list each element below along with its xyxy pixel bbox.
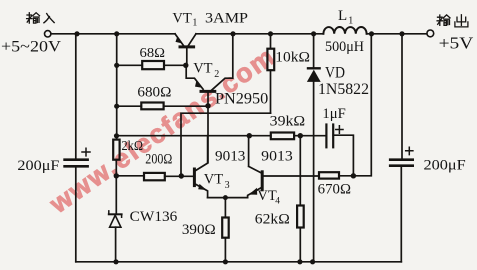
resistor 68 ohm (117, 61, 186, 69)
transistor VT3 (194, 136, 207, 198)
svg-text:500μH: 500μH (325, 39, 365, 55)
node: 62k at rail (297, 259, 302, 264)
node: 670 ohm right / 1uF right (351, 173, 356, 178)
node: zener at rail (113, 259, 118, 264)
transistor VT1 (175, 34, 196, 66)
svg-text:PN2950: PN2950 (215, 90, 269, 107)
transistor VT4 (248, 136, 319, 198)
node: 39k right / 1uF / 62k (298, 133, 303, 138)
svg-text:+5~20V: +5~20V (1, 39, 62, 56)
resistor 200 ohm (116, 173, 193, 180)
inductor L1 (323, 27, 366, 34)
node: VT4 collector / 39k line (247, 133, 252, 138)
wire: emitter bus (208, 197, 248, 199)
svg-text:4: 4 (275, 197, 280, 207)
resistor 670 ohm (319, 34, 371, 179)
svg-text:200μF: 200μF (17, 158, 59, 174)
svg-text:62kΩ: 62kΩ (255, 212, 290, 228)
svg-text:CW136: CW136 (130, 209, 178, 225)
resistor 680 ohm (117, 103, 208, 110)
node: rail x77 (74, 31, 79, 36)
label 输 of 输入 (27, 13, 40, 23)
svg-text:VD: VD (325, 65, 345, 82)
node: emitter bus center (223, 195, 228, 200)
svg-text:3AMP: 3AMP (205, 11, 248, 27)
svg-text:9013: 9013 (215, 149, 245, 165)
node: VD at rail (310, 259, 315, 264)
node: L1 right (369, 31, 374, 36)
svg-text:VT: VT (257, 188, 276, 204)
wire: input to VT1 emitter (51, 33, 175, 35)
svg-text:1: 1 (348, 16, 353, 27)
svg-text:1N5822: 1N5822 (318, 81, 369, 98)
output terminal (427, 30, 434, 37)
svg-text:www.elecfans.com: www.elecfans.com (43, 41, 281, 220)
svg-text:680Ω: 680Ω (137, 85, 171, 101)
resistor 62k (297, 136, 304, 262)
svg-text:39kΩ: 39kΩ (270, 114, 306, 130)
node: VT2 collector at rail (230, 31, 235, 36)
capacitor 200uF right (390, 34, 413, 262)
node: 390 at rail (223, 259, 228, 264)
wire: VT1 collector rail to L1 (196, 33, 323, 35)
node dot 68 ohm left (114, 63, 119, 68)
svg-text:390Ω: 390Ω (182, 222, 216, 238)
svg-text:3: 3 (225, 180, 230, 191)
input terminal (45, 31, 51, 37)
node: VD top (311, 31, 316, 36)
wire: x116 column top (116, 34, 118, 140)
node: VT2 base / 680 ohm (205, 103, 210, 108)
svg-text:2kΩ: 2kΩ (122, 138, 144, 153)
resistor 2k (113, 140, 119, 214)
svg-text:10kΩ: 10kΩ (275, 50, 310, 66)
resistor 39k (271, 133, 326, 140)
node: rail x116.7 (114, 31, 119, 36)
svg-text:1: 1 (192, 18, 197, 29)
wire: L1 to output (367, 33, 427, 35)
label 出 (455, 15, 468, 27)
svg-text:VT: VT (204, 172, 223, 188)
node: 10k top (268, 31, 273, 36)
label 输 of 输出 (437, 15, 450, 25)
capacitor 1uF (326, 125, 353, 176)
svg-text:200Ω: 200Ω (145, 152, 172, 168)
zener diode CW136 (109, 211, 122, 262)
svg-text:9013: 9013 (261, 149, 293, 165)
node dot 2k top (114, 133, 119, 138)
wire: feedback line y135.6 (117, 135, 271, 137)
resistor 390 ohm (222, 198, 229, 262)
transistor VT2 (186, 34, 233, 163)
svg-text:+5V: +5V (439, 34, 474, 53)
resistor 10k (267, 34, 274, 113)
svg-text:670Ω: 670Ω (318, 182, 352, 198)
node: VT1 base / 68 ohm / VT2 emitter (183, 63, 188, 68)
node: 200 ohm left (114, 173, 119, 178)
node: output cap top (399, 31, 404, 36)
svg-text:2: 2 (214, 69, 219, 80)
label 入 (44, 14, 54, 23)
node: VT3 base tee (179, 173, 184, 178)
svg-text:68Ω: 68Ω (140, 46, 166, 61)
svg-text:VT: VT (193, 61, 212, 77)
svg-text:200μF: 200μF (424, 157, 466, 173)
node dot 680 ohm left (114, 104, 119, 109)
svg-text:1μF: 1μF (322, 106, 345, 122)
capacitor 200uF left (65, 34, 90, 262)
wire: 10k bottom to VT3 base column (181, 113, 271, 176)
wire: bottom rail (76, 261, 402, 263)
svg-text:VT: VT (172, 11, 191, 27)
diode VD 1N5822 (307, 34, 321, 262)
svg-text:L: L (338, 8, 347, 24)
